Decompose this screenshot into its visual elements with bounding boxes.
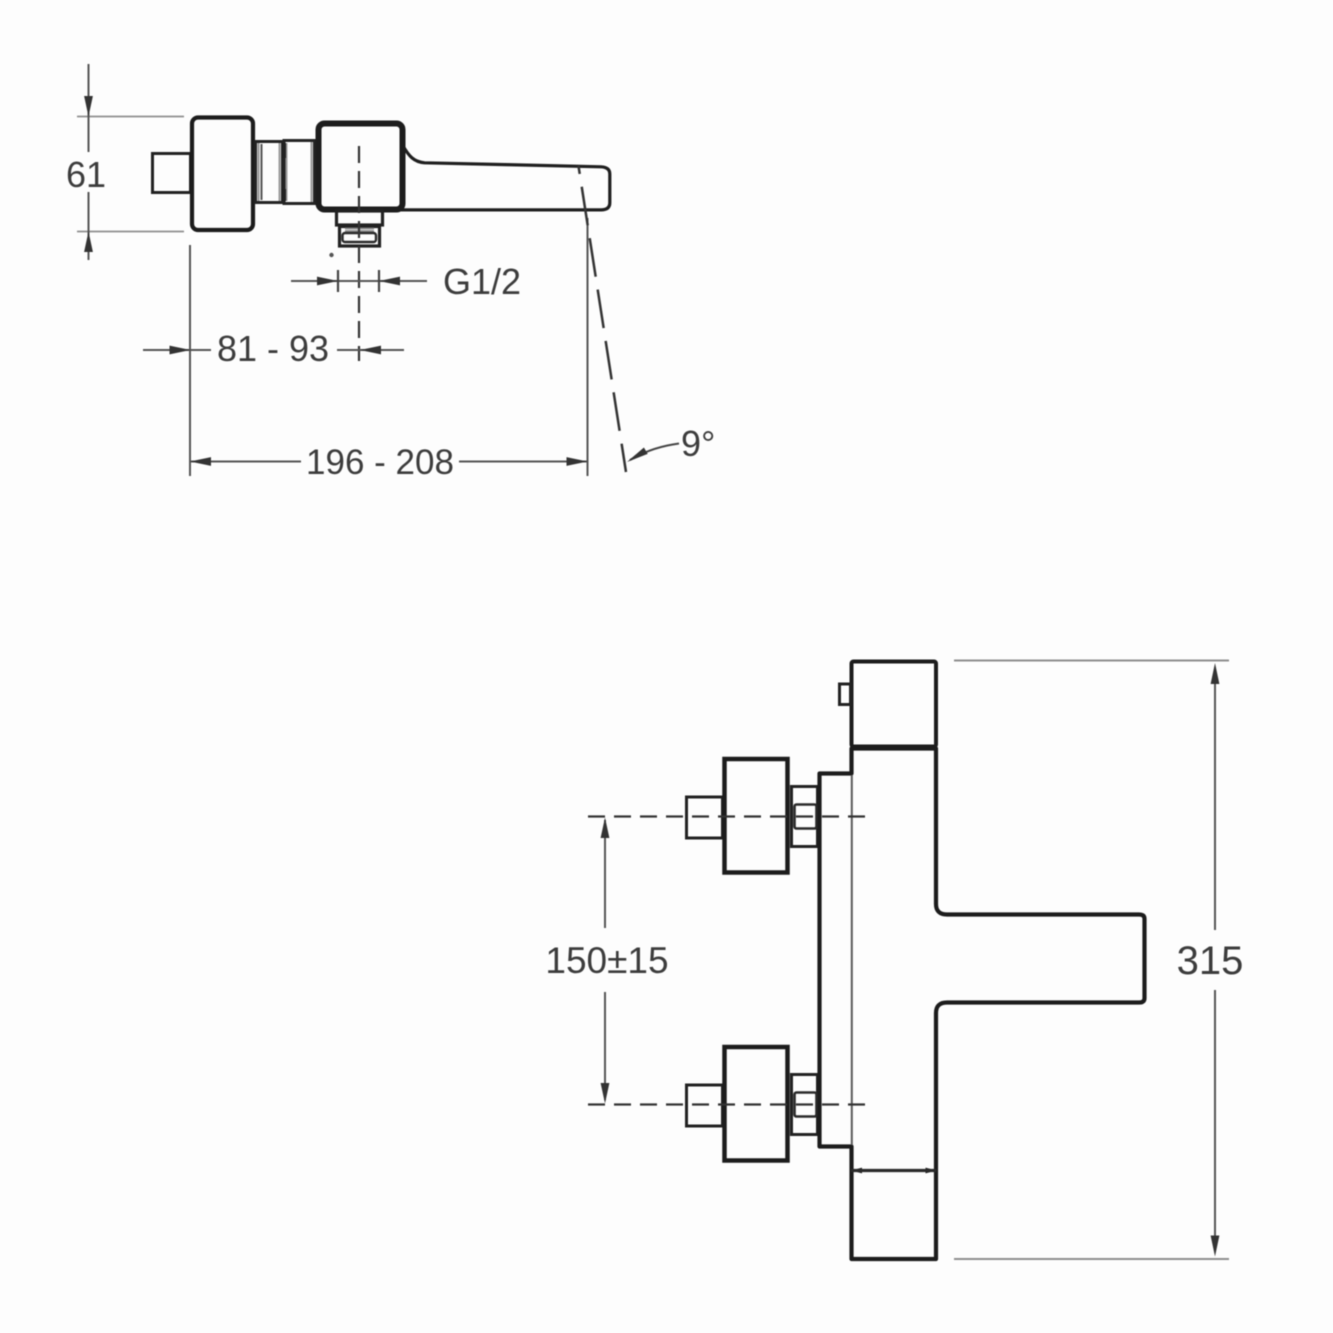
- top cap side tab: [840, 684, 851, 705]
- svg-text:9°: 9°: [681, 423, 715, 464]
- lower handle body: [725, 1047, 788, 1161]
- dimension 150+-15 : arrow up: [601, 818, 610, 839]
- dimension 61 : arrow up: [84, 232, 93, 253]
- upper handle nut: [795, 805, 817, 829]
- dimension 61 : dimension line: [88, 64, 90, 152]
- outlet step 2 (G1/2 thread): [340, 227, 380, 247]
- dimension 61 : extension line bottom: [77, 231, 184, 233]
- upper handle body: [725, 759, 788, 873]
- dimension 196-208 : dimension line: [190, 461, 301, 463]
- svg-text:315: 315: [1177, 939, 1244, 983]
- dimension 81-93 : arrow right at wall: [170, 346, 191, 355]
- svg-text:150±15: 150±15: [545, 940, 668, 981]
- dimension 81-93 : dimension line: [143, 349, 211, 351]
- lower handle adapter: [792, 1075, 818, 1135]
- dimension 196-208 : arrow right: [567, 457, 588, 466]
- upper handle centreline (dashed): [588, 815, 866, 817]
- dimension 150+-15 : dimension line: [604, 820, 606, 928]
- escutcheon body: [192, 118, 253, 231]
- joint end marks: [852, 745, 863, 751]
- body / bottom cap joint line: [851, 1169, 937, 1172]
- outlet step 1: [337, 211, 383, 225]
- dimension G1/2 : tick left: [337, 270, 339, 292]
- dimension G1/2 : tick right: [378, 270, 380, 292]
- dimension G1/2 : dimension line: [291, 280, 427, 282]
- mixer body with spout outline: [820, 749, 1145, 1260]
- dimension 150+-15 : arrow down: [601, 1083, 610, 1104]
- dimension 61 : extension line top: [77, 116, 184, 118]
- inner plate edge line: [851, 775, 853, 1145]
- dimension G1/2 : arrow right: [317, 277, 338, 286]
- dimension 315 : dimension line: [1214, 668, 1216, 930]
- collar B: [284, 141, 315, 204]
- dimension 61 : arrow down: [84, 96, 93, 117]
- dimension 196-208 : right extension line: [587, 218, 589, 476]
- spout: [398, 145, 610, 210]
- thread shading lines: [345, 228, 374, 230]
- angle arc 9 deg: [630, 444, 679, 461]
- collar A: [256, 142, 283, 203]
- dimension 315 : extension line bottom: [954, 1258, 1229, 1260]
- svg-text:81 - 93: 81 - 93: [217, 328, 329, 369]
- lower handle nut: [795, 1093, 817, 1117]
- mixer body square: [319, 124, 403, 210]
- angle arc arrow: [627, 448, 648, 463]
- centreline stray dot: [329, 253, 333, 257]
- lower handle lever: [687, 1085, 723, 1126]
- spout tilt dashed line (9 deg): [579, 166, 627, 472]
- dimension G1/2 : arrow left: [379, 277, 400, 286]
- svg-text:196 - 208: 196 - 208: [306, 443, 454, 482]
- upper handle adapter: [792, 787, 818, 847]
- upper handle lever: [687, 797, 723, 838]
- svg-text:G1/2: G1/2: [443, 261, 521, 302]
- wall supply stub: [153, 154, 191, 193]
- dimension 315 : extension line top: [954, 660, 1229, 662]
- lower handle centreline (dashed): [588, 1103, 866, 1105]
- top cap: [852, 662, 937, 747]
- svg-text:61: 61: [66, 154, 106, 195]
- collar B shading line: [311, 142, 313, 202]
- dimension 315 : arrow down: [1211, 1236, 1220, 1257]
- outlet centreline (dashed): [358, 146, 360, 361]
- wall plane extension line: [189, 245, 191, 476]
- collar A shading lines: [258, 143, 260, 201]
- dimension 81-93 : arrow left at axis: [360, 346, 381, 355]
- thread relief ring: [343, 233, 377, 242]
- collar divider shading + end blobs: [286, 143, 288, 201]
- dimension 315 : arrow up: [1211, 663, 1220, 684]
- dimension 196-208 : arrow left: [190, 457, 211, 466]
